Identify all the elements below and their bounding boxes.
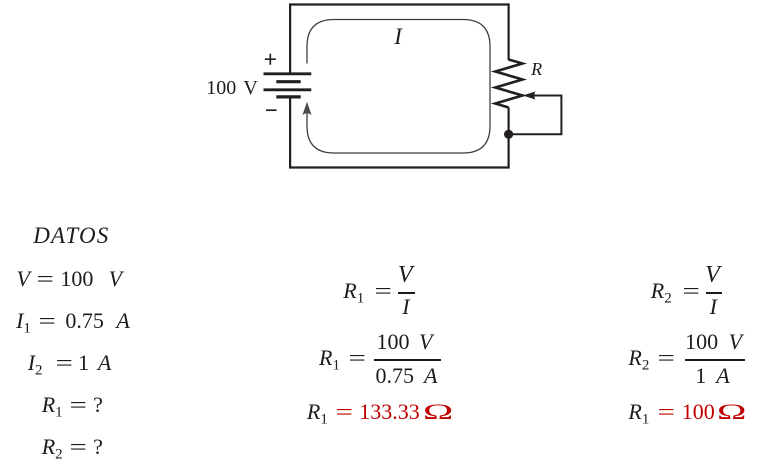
battery minus terminal mark [266,109,277,111]
wire: outer loop right upper (to resistor) [508,4,510,61]
wiper arrow wire of rheostat [513,96,561,135]
current direction arrowhead [302,102,311,115]
label: R (rheostat) [531,60,542,78]
label: I (loop current) [394,25,402,48]
text: I2 = 1 A [28,352,112,379]
equation: R2 = V/I [651,280,706,307]
node: junction dot [504,130,513,139]
equation: R1 = 100 V / 0.75 A [319,347,372,374]
circuit schematic drawing [0,0,757,200]
wiper arrowhead [523,92,536,100]
label: 100 V (battery value) [206,78,258,98]
equation: R2 = 100 V / 1 A [628,347,681,374]
resistor R (rheostat zigzag) [495,60,522,108]
text: R2 = ? [42,436,103,463]
equation: R1 = V/I [343,280,398,307]
wire: outer loop top side [289,3,510,5]
battery plus terminal mark [265,54,276,65]
result: R1 = 100 ohm [628,401,733,428]
text: V = 100 V [17,268,123,290]
wire: outer loop left lower (from battery -) [289,97,291,169]
text: DATOS heading [33,224,109,247]
result: R1 = 133.33 ohm [307,401,439,428]
wire: outer loop bottom side [289,166,510,168]
text: R1 = ? [42,394,103,421]
wire: outer loop right lower (from resistor, through node) [508,108,510,169]
wire: outer loop left upper (to battery +) [289,4,291,74]
current loop (inner rounded path) [307,20,490,154]
battery 100 V [264,74,312,97]
text: I1 = 0.75 A [16,310,130,337]
